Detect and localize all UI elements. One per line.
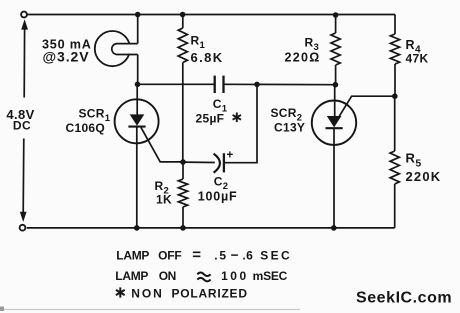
SCR2 body circle (312, 101, 356, 145)
svg-text:100µF: 100µF (198, 189, 238, 203)
SCR2 cathode bar (326, 127, 343, 129)
node SCR1 gate / R1 / R2 / C2 junction (180, 159, 186, 165)
wire top supply rail (27, 14, 395, 16)
lamp filament slot outline (112, 44, 138, 55)
svg-text:LAMPON100mSEC: LAMPON100mSEC (115, 269, 287, 283)
resistor R1 body (182, 15, 184, 29)
wire lamp anode drop (137, 15, 139, 44)
svg-text:DC: DC (13, 118, 31, 132)
svg-text:220Ω: 220Ω (285, 50, 321, 64)
node R2 bottom on bottom rail (180, 225, 186, 231)
voltage arrow down head (20, 212, 27, 222)
svg-text:@3.2V: @3.2V (43, 48, 90, 64)
svg-text:NONPOLARIZED: NONPOLARIZED (131, 286, 247, 300)
voltage arrow shaft lower (22, 139, 25, 213)
wire top rail corner to R4 (394, 15, 396, 35)
terminal positive top-left (21, 12, 27, 18)
voltage arrow up head (21, 19, 28, 29)
SCR2 gate wire (338, 96, 395, 118)
resistor R5 body (394, 96, 396, 151)
SCR1 gate wire (141, 127, 183, 161)
svg-text:R1: R1 (191, 34, 206, 52)
svg-text:1K: 1K (156, 193, 172, 207)
capacitor C2 straight plate (223, 153, 225, 172)
scan artifact bottom streak (2, 309, 300, 311)
SCR1 cathode wire (136, 127, 138, 228)
SCR2 anode wire (334, 85, 336, 117)
svg-text:SeekIC.com: SeekIC.com (356, 290, 452, 307)
SCR1 thyristor triangle (130, 114, 145, 125)
node C1/C2 junction (254, 82, 260, 88)
approx equals sign drawn (197, 273, 210, 282)
svg-text:25µF: 25µF (196, 111, 225, 125)
svg-text:R5: R5 (406, 151, 422, 170)
svg-text:C13Y: C13Y (274, 121, 305, 135)
svg-text:C106Q: C106Q (66, 121, 106, 135)
node SCR2 cathode on bottom rail (331, 225, 337, 231)
node lamp-top junction (135, 12, 141, 18)
wire bottom supply rail (27, 227, 395, 229)
capacitor C1 plates (214, 76, 216, 93)
voltage arrow shaft upper (23, 29, 25, 98)
node SCR2 anode / R3 bottom (333, 82, 339, 88)
terminal negative bottom-left (20, 225, 26, 231)
wire C2 branch vertical (224, 84, 257, 162)
resistor R2 body (182, 162, 184, 179)
SCR1 anode wire (136, 84, 138, 115)
node SCR2 gate / R4 / R5 junction (392, 93, 398, 99)
wire lamp bottom drop (137, 55, 139, 85)
svg-text:+: + (227, 150, 234, 162)
wire SCR1 anode to C1 (138, 83, 215, 85)
resistor R4 body (394, 33, 396, 35)
svg-text:220K: 220K (406, 169, 442, 184)
lamp 350mA bulb circle (95, 31, 130, 66)
asterisk non-polarized mark for C1 (236, 113, 238, 123)
svg-text:LAMPOFF=.5−.6SEC: LAMPOFF=.5−.6SEC (116, 246, 292, 263)
svg-text:47K: 47K (406, 51, 429, 65)
wire gate node to C2 (183, 161, 215, 163)
resistor R3 body (335, 15, 337, 33)
wire C1 to SCR2 anode (224, 83, 336, 85)
capacitor C2 curved plate (214, 154, 220, 173)
SCR1 cathode bar (128, 126, 145, 128)
node R1 top junction (180, 12, 186, 18)
node SCR1 anode / lamp bottom (135, 82, 141, 88)
SCR1 body circle (115, 99, 159, 143)
svg-text:6.8K: 6.8K (191, 50, 224, 65)
node R3 top junction (333, 12, 339, 18)
note non polarized asterisk (119, 287, 121, 297)
SCR2 thyristor triangle (327, 116, 342, 127)
node SCR1 cathode on bottom rail (134, 225, 140, 231)
SCR2 cathode wire (333, 128, 335, 228)
